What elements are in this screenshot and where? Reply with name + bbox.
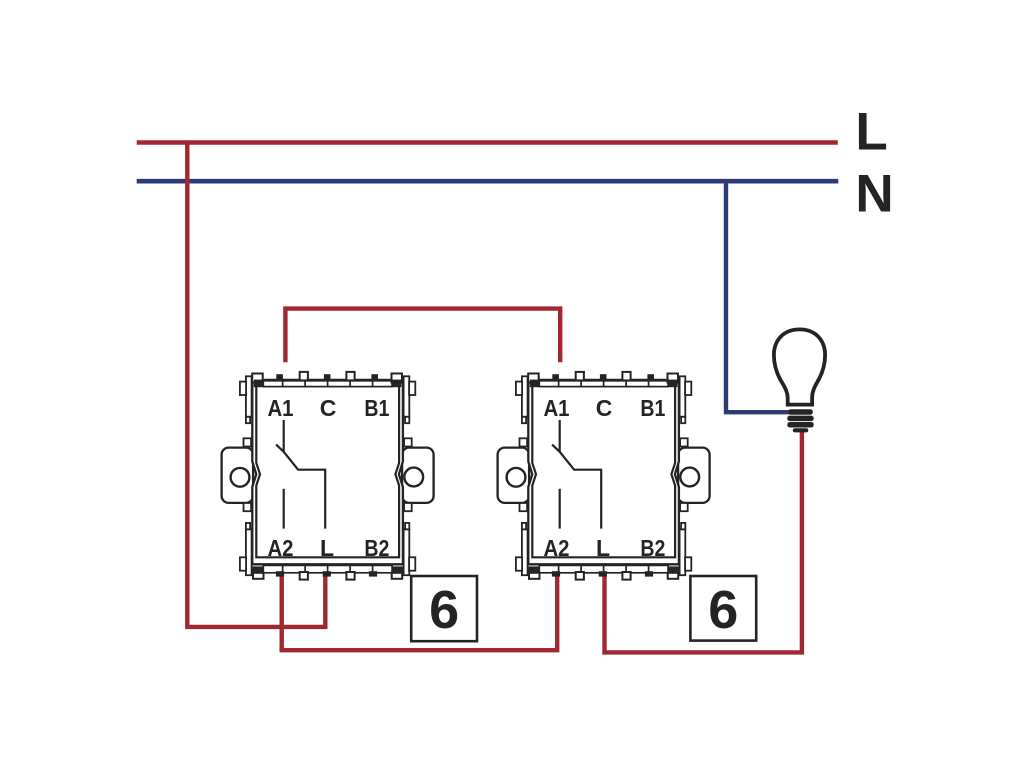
wire N line (blue) bbox=[137, 179, 839, 184]
lamp bulb glass bbox=[774, 329, 825, 404]
switch S1 bbox=[222, 372, 434, 580]
box 6 right bbox=[690, 576, 756, 641]
svg-text:6: 6 bbox=[708, 580, 738, 640]
lamp base bar 3 bbox=[787, 422, 813, 428]
svg-text:6: 6 bbox=[429, 580, 459, 640]
switch S2 bbox=[498, 372, 710, 580]
svg-text:L: L bbox=[855, 103, 887, 162]
wire switch2 L to lamp bbox=[602, 432, 804, 655]
lamp base bar 1 bbox=[788, 409, 813, 415]
wire L feed down and to switch1 L bbox=[185, 140, 327, 629]
wire top link A1-A1 bbox=[283, 306, 562, 362]
box 6 left bbox=[411, 576, 477, 641]
wire bottom link A2-A2 bbox=[280, 570, 560, 652]
lamp base cap bbox=[793, 428, 809, 432]
svg-text:N: N bbox=[855, 165, 893, 224]
wire blue drop to lamp bbox=[726, 179, 790, 412]
lamp base bar 2 bbox=[787, 416, 813, 422]
wire L line (red) bbox=[137, 140, 838, 144]
